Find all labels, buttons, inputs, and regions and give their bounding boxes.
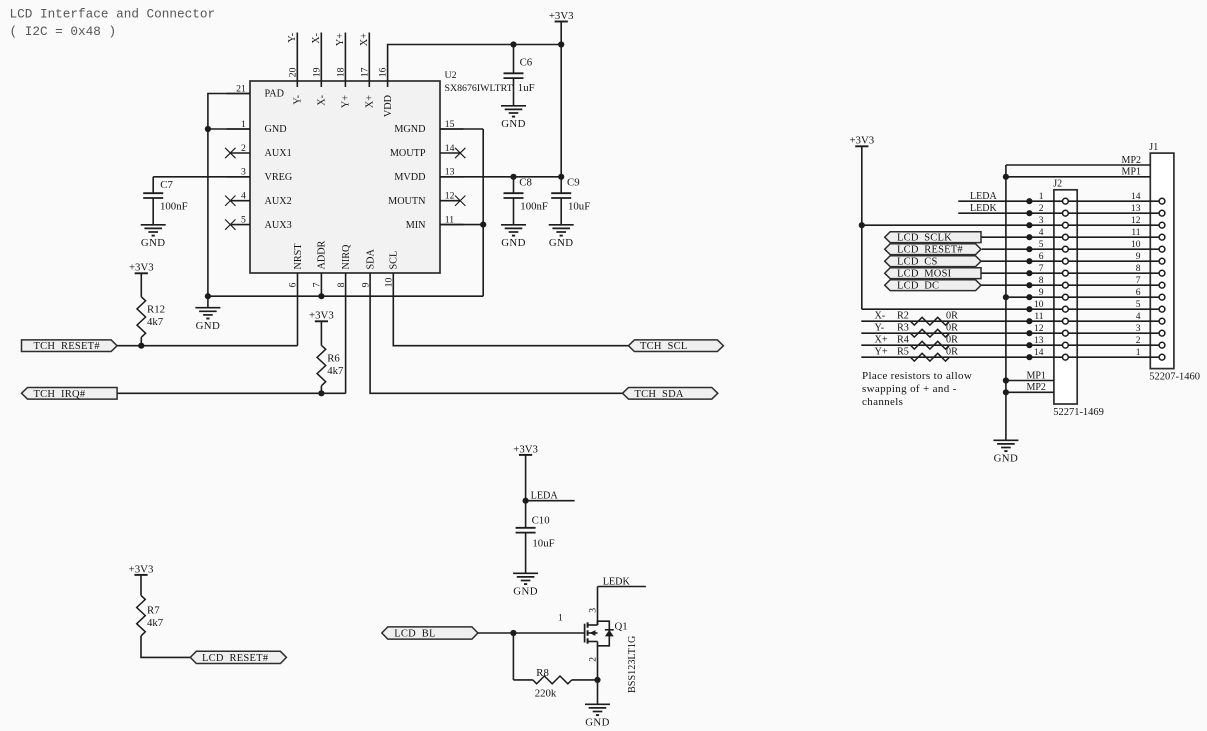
svg-text:U2: U2 [445, 70, 457, 81]
svg-text:10: 10 [1034, 300, 1044, 310]
svg-text:MP2: MP2 [1026, 382, 1045, 393]
svg-text:14: 14 [445, 143, 455, 154]
svg-text:( I2C = 0x48 ): ( I2C = 0x48 ) [10, 24, 117, 39]
svg-text:swapping of + and -: swapping of + and - [862, 383, 957, 395]
svg-text:7: 7 [1039, 264, 1044, 274]
svg-text:3: 3 [241, 167, 246, 178]
svg-text:R2: R2 [897, 311, 909, 322]
svg-text:GND: GND [141, 237, 166, 249]
svg-text:13: 13 [1034, 336, 1044, 346]
svg-text:PAD: PAD [265, 89, 284, 100]
svg-text:8: 8 [1039, 276, 1044, 286]
svg-text:8: 8 [1136, 264, 1141, 274]
svg-text:LCD RESET#: LCD RESET# [202, 653, 269, 664]
svg-text:LCD SCLK: LCD SCLK [897, 233, 952, 244]
svg-text:GND: GND [265, 124, 287, 135]
svg-text:MGND: MGND [394, 124, 425, 135]
svg-text:220k: 220k [535, 687, 557, 699]
svg-text:LEDK: LEDK [603, 576, 631, 587]
svg-text:GND: GND [994, 453, 1019, 465]
svg-text:BSS123LT1G: BSS123LT1G [627, 635, 638, 693]
svg-text:Y+: Y+ [335, 33, 346, 46]
svg-text:21: 21 [236, 83, 246, 94]
svg-text:+3V3: +3V3 [549, 10, 574, 22]
svg-text:MOUTN: MOUTN [388, 196, 426, 207]
svg-text:LCD BL: LCD BL [394, 629, 435, 640]
svg-text:10uF: 10uF [568, 200, 590, 212]
svg-text:SDA: SDA [365, 248, 376, 269]
svg-text:X+: X+ [359, 33, 370, 46]
svg-text:0R: 0R [946, 335, 958, 346]
svg-text:LCD DC: LCD DC [897, 281, 939, 292]
svg-text:TCH SCL: TCH SCL [640, 341, 688, 352]
svg-text:Y+: Y+ [875, 347, 888, 358]
svg-text:13: 13 [1131, 204, 1141, 214]
svg-text:4: 4 [1136, 312, 1141, 322]
svg-text:AUX2: AUX2 [265, 196, 292, 207]
svg-text:ADDR: ADDR [317, 240, 328, 269]
svg-text:Y-: Y- [875, 323, 885, 334]
svg-text:X-: X- [311, 32, 322, 43]
svg-text:10: 10 [1131, 240, 1141, 250]
svg-text:4: 4 [1039, 228, 1044, 238]
svg-text:NIRQ: NIRQ [341, 244, 352, 270]
svg-text:C6: C6 [520, 57, 533, 69]
svg-text:+3V3: +3V3 [513, 443, 538, 455]
svg-text:4: 4 [241, 191, 246, 202]
svg-text:14: 14 [1131, 192, 1141, 202]
svg-text:R8: R8 [536, 667, 549, 679]
svg-text:J1: J1 [1149, 142, 1158, 153]
svg-text:52207-1460: 52207-1460 [1149, 371, 1200, 382]
svg-text:R6: R6 [327, 352, 340, 364]
svg-text:R12: R12 [147, 303, 165, 315]
svg-text:LEDA: LEDA [970, 191, 997, 202]
svg-text:7: 7 [1136, 276, 1141, 286]
svg-text:4k7: 4k7 [147, 617, 164, 629]
svg-text:X-: X- [875, 311, 886, 322]
svg-text:TCH IRQ#: TCH IRQ# [34, 389, 86, 400]
svg-text:12: 12 [445, 191, 455, 202]
svg-text:AUX3: AUX3 [265, 220, 292, 231]
svg-text:6: 6 [1039, 252, 1044, 262]
svg-text:SCL: SCL [389, 251, 400, 270]
svg-text:Y-: Y- [293, 94, 304, 104]
svg-text:AUX1: AUX1 [265, 148, 292, 159]
svg-text:12: 12 [1131, 216, 1141, 226]
svg-text:LCD Interface and Connector: LCD Interface and Connector [10, 7, 216, 22]
svg-text:Y-: Y- [287, 32, 298, 42]
svg-text:0R: 0R [946, 311, 958, 322]
svg-text:X+: X+ [875, 335, 888, 346]
svg-text:4k7: 4k7 [147, 316, 164, 328]
svg-text:Q1: Q1 [615, 621, 628, 633]
svg-text:C10: C10 [532, 514, 550, 526]
svg-text:J2: J2 [1053, 179, 1062, 190]
svg-text:LEDK: LEDK [970, 203, 997, 214]
svg-text:VREG: VREG [265, 172, 293, 183]
svg-text:C8: C8 [519, 177, 532, 189]
svg-text:11: 11 [445, 214, 454, 225]
svg-text:1: 1 [1039, 192, 1044, 202]
svg-text:GND: GND [501, 118, 526, 130]
svg-text:+3V3: +3V3 [309, 310, 334, 322]
svg-text:5: 5 [1136, 300, 1141, 310]
svg-text:MVDD: MVDD [394, 172, 425, 183]
svg-text:0R: 0R [946, 323, 958, 334]
svg-text:4k7: 4k7 [327, 365, 344, 377]
svg-text:C9: C9 [567, 177, 580, 189]
svg-text:13: 13 [445, 167, 455, 178]
svg-text:GND: GND [549, 237, 574, 249]
svg-text:NRST: NRST [293, 243, 304, 270]
svg-text:TCH RESET#: TCH RESET# [34, 341, 101, 352]
svg-text:GND: GND [585, 717, 610, 729]
svg-text:100nF: 100nF [160, 200, 188, 212]
svg-text:0R: 0R [946, 347, 958, 358]
svg-text:1: 1 [1136, 348, 1141, 358]
svg-text:6: 6 [1136, 288, 1141, 298]
svg-text:LCD MOSI: LCD MOSI [897, 269, 952, 280]
svg-text:2: 2 [1039, 204, 1044, 214]
svg-text:GND: GND [513, 586, 538, 598]
svg-text:15: 15 [445, 119, 455, 130]
svg-text:3: 3 [588, 608, 599, 613]
svg-text:2: 2 [241, 143, 246, 154]
svg-text:GND: GND [501, 237, 526, 249]
svg-text:R4: R4 [897, 335, 909, 346]
svg-text:GND: GND [196, 320, 221, 332]
svg-text:TCH SDA: TCH SDA [635, 389, 684, 400]
svg-text:+3V3: +3V3 [129, 262, 154, 274]
svg-text:LCD RESET#: LCD RESET# [897, 245, 963, 256]
svg-text:R3: R3 [897, 323, 909, 334]
svg-text:11: 11 [1131, 228, 1140, 238]
svg-text:MIN: MIN [406, 220, 426, 231]
svg-text:MOUTP: MOUTP [390, 148, 426, 159]
svg-text:12: 12 [1034, 324, 1044, 334]
svg-text:MP1: MP1 [1122, 167, 1141, 178]
svg-text:1: 1 [241, 119, 246, 130]
svg-text:SX8676IWLTRT: SX8676IWLTRT [445, 83, 513, 94]
svg-text:14: 14 [1034, 348, 1044, 358]
svg-text:5: 5 [241, 214, 246, 225]
svg-text:X-: X- [317, 94, 328, 105]
svg-text:100nF: 100nF [520, 200, 548, 212]
svg-text:1: 1 [558, 613, 563, 624]
svg-text:channels: channels [862, 396, 903, 408]
svg-text:10uF: 10uF [532, 538, 554, 550]
svg-text:LCD CS: LCD CS [897, 257, 938, 268]
svg-text:MP1: MP1 [1026, 370, 1045, 381]
svg-text:X+: X+ [365, 95, 376, 108]
svg-text:MP2: MP2 [1122, 155, 1141, 166]
svg-text:C7: C7 [160, 179, 173, 191]
svg-text:R5: R5 [897, 347, 909, 358]
svg-text:1uF: 1uF [518, 82, 535, 94]
svg-text:52271-1469: 52271-1469 [1053, 407, 1104, 418]
svg-text:9: 9 [1039, 288, 1044, 298]
svg-text:3: 3 [1136, 324, 1141, 334]
svg-text:Y+: Y+ [341, 95, 352, 108]
svg-text:2: 2 [1136, 336, 1141, 346]
svg-text:3: 3 [1039, 216, 1044, 226]
svg-text:VDD: VDD [383, 95, 394, 117]
svg-text:LEDA: LEDA [531, 491, 559, 502]
svg-text:11: 11 [1034, 312, 1043, 322]
svg-text:+3V3: +3V3 [129, 563, 154, 575]
svg-text:R7: R7 [147, 605, 160, 617]
svg-text:+3V3: +3V3 [849, 135, 874, 147]
svg-text:Place resistors to allow: Place resistors to allow [862, 370, 972, 382]
svg-text:9: 9 [1136, 252, 1141, 262]
svg-text:5: 5 [1039, 240, 1044, 250]
